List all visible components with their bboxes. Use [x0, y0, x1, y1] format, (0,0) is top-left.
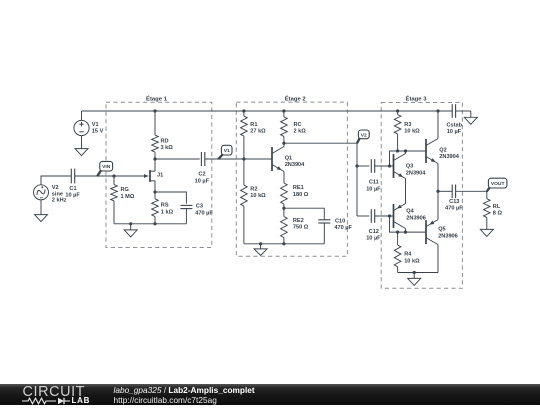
capacitor C3	[180, 205, 192, 208]
svg-text:V2: V2	[52, 185, 59, 191]
svg-text:RE2: RE2	[293, 218, 304, 224]
wire Q2 collector	[437, 111, 439, 139]
wire C11 to Q3 base	[375, 165, 394, 167]
svg-text:10 µF: 10 µF	[65, 193, 80, 199]
svg-text:1 MΩ: 1 MΩ	[121, 194, 135, 200]
wire rail to Cstab ground	[456, 110, 471, 112]
svg-text:C3: C3	[196, 204, 203, 210]
wire J1 source	[154, 181, 156, 192]
capacitor C1	[71, 169, 74, 184]
label V2 value	[52, 185, 67, 204]
ground stage2	[254, 244, 267, 256]
wire to C11	[357, 165, 369, 167]
junction source node	[153, 190, 156, 193]
label R3	[404, 122, 420, 135]
wire top rail	[82, 110, 453, 112]
junction Q4 base tie	[388, 214, 391, 217]
junction Q4 collector	[404, 231, 407, 234]
svg-text:Q3: Q3	[406, 164, 413, 170]
svg-text:V1: V1	[92, 122, 99, 128]
svg-text:1 kΩ: 1 kΩ	[161, 209, 174, 215]
label V1 value	[92, 122, 104, 135]
label Q3	[406, 164, 426, 177]
svg-text:27 kΩ: 27 kΩ	[250, 129, 266, 135]
wire base Q1	[244, 158, 272, 160]
wire Q4 base to collector	[390, 216, 427, 232]
label C2	[195, 172, 210, 185]
junction R4 top	[396, 231, 399, 234]
label C13	[445, 199, 463, 212]
wire source to C3	[155, 192, 186, 204]
capacitor C13	[452, 185, 455, 199]
wire C2 to stage2	[205, 158, 244, 160]
label J1	[157, 172, 163, 178]
svg-text:2N3904: 2N3904	[406, 170, 426, 176]
label Étage 1	[146, 94, 168, 102]
wire J1 drain	[154, 159, 156, 171]
wire Q1 emitter	[283, 172, 285, 184]
label Q4	[406, 209, 426, 222]
svg-text:C13: C13	[449, 199, 459, 205]
svg-text:R3: R3	[404, 122, 411, 128]
wire Q5 emitter	[437, 191, 439, 219]
label C10	[334, 218, 352, 231]
wire Q2 emitter	[437, 164, 439, 192]
svg-text:10 kΩ: 10 kΩ	[404, 129, 420, 135]
svg-text:V1: V1	[224, 148, 230, 154]
wire C3 bottom	[185, 209, 187, 224]
wire Q1 collector	[283, 143, 285, 146]
svg-text:10 µF: 10 µF	[366, 186, 381, 192]
svg-text:8 Ω: 8 Ω	[493, 211, 503, 217]
svg-text:180 Ω: 180 Ω	[293, 192, 309, 198]
resistor RG	[111, 176, 118, 224]
svg-text:10 kΩ: 10 kΩ	[404, 258, 420, 264]
transistor J1	[144, 170, 155, 182]
svg-text:R1: R1	[250, 122, 257, 128]
node VIN flag	[97, 161, 112, 176]
svg-text:2N3904: 2N3904	[285, 162, 305, 168]
junction ground tap s2	[259, 242, 262, 245]
wire Q3 emitter to Q4 emitter	[405, 179, 407, 204]
svg-text:10 µF: 10 µF	[447, 129, 462, 135]
wire Q4 collector down	[405, 229, 407, 233]
capacitor C10	[318, 220, 330, 223]
svg-text:C12: C12	[369, 229, 379, 235]
label C1	[65, 186, 80, 199]
svg-text:10 kΩ: 10 kΩ	[250, 193, 266, 199]
svg-text:VIN: VIN	[102, 164, 111, 170]
wire C12 to Q4 base	[375, 215, 394, 217]
junction collector node	[282, 142, 285, 145]
junction Q3 base tie	[388, 164, 391, 167]
wire V1 top	[81, 111, 83, 120]
svg-text:C2: C2	[198, 172, 205, 178]
wire to C12	[357, 215, 369, 217]
svg-text:V2: V2	[361, 132, 367, 138]
svg-text:Q1: Q1	[285, 155, 292, 161]
label Q1	[285, 155, 305, 168]
wire Q5 collector	[437, 245, 439, 273]
transistor Q1	[272, 147, 284, 172]
stage box Étage 2	[236, 102, 347, 256]
junction drain node	[153, 157, 156, 160]
junction output node	[436, 190, 439, 193]
junction RS bottom	[153, 222, 156, 225]
resistor RS	[152, 192, 159, 224]
junction RD top rail	[153, 109, 156, 112]
node VOUT flag	[487, 178, 507, 191]
ground Cstab	[464, 111, 477, 124]
label Q5	[438, 227, 458, 240]
junction R1 rail	[242, 109, 245, 112]
stage box Étage 3	[381, 103, 462, 289]
node V2 flag	[357, 130, 369, 143]
ground below RL	[480, 229, 493, 236]
svg-text:15 V: 15 V	[92, 129, 104, 135]
ground stage3	[408, 273, 421, 286]
svg-text:RG: RG	[121, 187, 129, 193]
label R1	[250, 122, 266, 135]
svg-text:Étage 3: Étage 3	[406, 94, 428, 102]
junction R3 bottom	[396, 149, 399, 152]
label RE2	[293, 218, 309, 231]
svg-text:C10: C10	[335, 218, 345, 224]
label RS	[161, 203, 174, 216]
transistor Q2	[426, 139, 438, 164]
svg-text:Étage 1: Étage 1	[146, 94, 168, 102]
voltage source V1	[74, 120, 89, 135]
transistor Q4	[394, 204, 406, 229]
svg-text:C11: C11	[369, 180, 379, 186]
label RD	[161, 138, 174, 151]
wire V2 bottom	[40, 200, 42, 215]
wire stage3 bottom	[398, 272, 438, 274]
footer bar	[0, 384, 540, 405]
junction input-RG	[112, 174, 115, 177]
resistor RL	[484, 191, 491, 229]
resistor R4	[394, 232, 401, 272]
label C3	[195, 204, 213, 217]
label Q2	[439, 147, 459, 160]
wire output to C13	[438, 190, 452, 192]
label C11	[366, 180, 381, 193]
node V1 flag	[218, 145, 232, 159]
svg-text:470 µF: 470 µF	[334, 225, 352, 231]
svg-text:RS: RS	[161, 203, 169, 209]
svg-text:2N3906: 2N3906	[438, 233, 458, 239]
ground below V2	[35, 215, 48, 222]
junction ground tap s3	[413, 271, 416, 274]
label Cstab	[447, 123, 463, 136]
wire C1 to gate	[75, 175, 147, 177]
svg-text:R4: R4	[404, 252, 412, 258]
svg-text:2 kΩ: 2 kΩ	[294, 129, 307, 135]
wire Q1 collector to C11C12	[284, 143, 357, 216]
svg-text:Q5: Q5	[438, 227, 445, 233]
svg-text:C1: C1	[69, 186, 76, 192]
junction C11 tap	[355, 164, 358, 167]
junction RE2 bottom	[282, 242, 285, 245]
label Étage 2	[285, 94, 307, 102]
label RG	[121, 187, 135, 200]
resistor R3	[394, 111, 401, 151]
capacitor Cstab	[452, 104, 455, 118]
svg-text:VOUT: VOUT	[491, 181, 505, 187]
svg-text:2N3906: 2N3906	[406, 215, 426, 221]
svg-text:J1: J1	[157, 172, 163, 178]
junction RC rail	[282, 109, 285, 112]
resistor RC	[281, 111, 288, 143]
label RE1	[293, 185, 309, 198]
resistor RD	[152, 111, 159, 159]
junction R1R2 node	[242, 157, 245, 160]
svg-text:R2: R2	[250, 186, 257, 192]
svg-text:470 µF: 470 µF	[445, 206, 463, 212]
capacitor C11	[371, 159, 374, 173]
junction ground tap s1	[129, 222, 132, 225]
svg-text:10 µF: 10 µF	[195, 178, 210, 184]
footer url	[114, 395, 217, 405]
svg-text:sine: sine	[52, 191, 63, 197]
svg-text:3 kΩ: 3 kΩ	[161, 145, 174, 151]
svg-text:750 Ω: 750 Ω	[293, 225, 309, 231]
wire V1 bottom	[81, 136, 83, 149]
resistor RE2	[281, 208, 288, 244]
stage box Étage 1	[106, 102, 212, 247]
wire RE to C10	[284, 208, 324, 220]
wire C10 bottom	[323, 223, 325, 244]
transistor Q3	[394, 154, 406, 179]
label RL	[493, 204, 503, 217]
svg-text:Q2: Q2	[439, 147, 446, 153]
wire stage1 bottom	[114, 223, 186, 225]
label R4	[404, 252, 420, 265]
wire Q3 base to collector	[390, 151, 427, 166]
svg-text:RD: RD	[161, 138, 169, 144]
label RC	[294, 122, 307, 135]
wire V2 top	[41, 176, 71, 185]
logo resistor-diode glyph	[22, 398, 70, 404]
capacitor C12	[371, 209, 374, 223]
label Étage 3	[406, 94, 428, 102]
ground below V1	[75, 149, 88, 156]
svg-text:Étage 2: Étage 2	[285, 94, 307, 102]
footer title text	[114, 385, 255, 395]
junction Q3 collector	[404, 149, 407, 152]
svg-text:10 µF: 10 µF	[366, 236, 381, 242]
wire stage2 bottom	[244, 243, 324, 245]
CircuitLab logo	[23, 384, 86, 400]
label C12	[366, 229, 381, 242]
transistor Q5	[426, 220, 438, 245]
svg-text:Q4: Q4	[406, 209, 414, 215]
wire to C2	[155, 158, 200, 160]
resistor R1	[241, 111, 248, 159]
svg-text:RE1: RE1	[293, 185, 304, 191]
svg-text:Cstab: Cstab	[447, 123, 463, 129]
svg-text:2N3904: 2N3904	[439, 154, 459, 160]
svg-text:470 µF: 470 µF	[195, 210, 213, 216]
wire Q3 collector up	[405, 151, 407, 154]
junction R3 rail	[396, 109, 399, 112]
svg-text:RL: RL	[493, 204, 501, 210]
label R2	[250, 186, 266, 199]
voltage source V2	[34, 185, 49, 200]
junction Q2 rail	[436, 109, 439, 112]
capacitor C2	[201, 152, 204, 166]
ground stage1	[124, 224, 137, 237]
wire C13 to RL	[456, 190, 487, 192]
svg-text:RC: RC	[294, 122, 302, 128]
junction RE node	[282, 207, 285, 210]
resistor RE1	[281, 183, 288, 208]
resistor R2	[241, 159, 248, 244]
